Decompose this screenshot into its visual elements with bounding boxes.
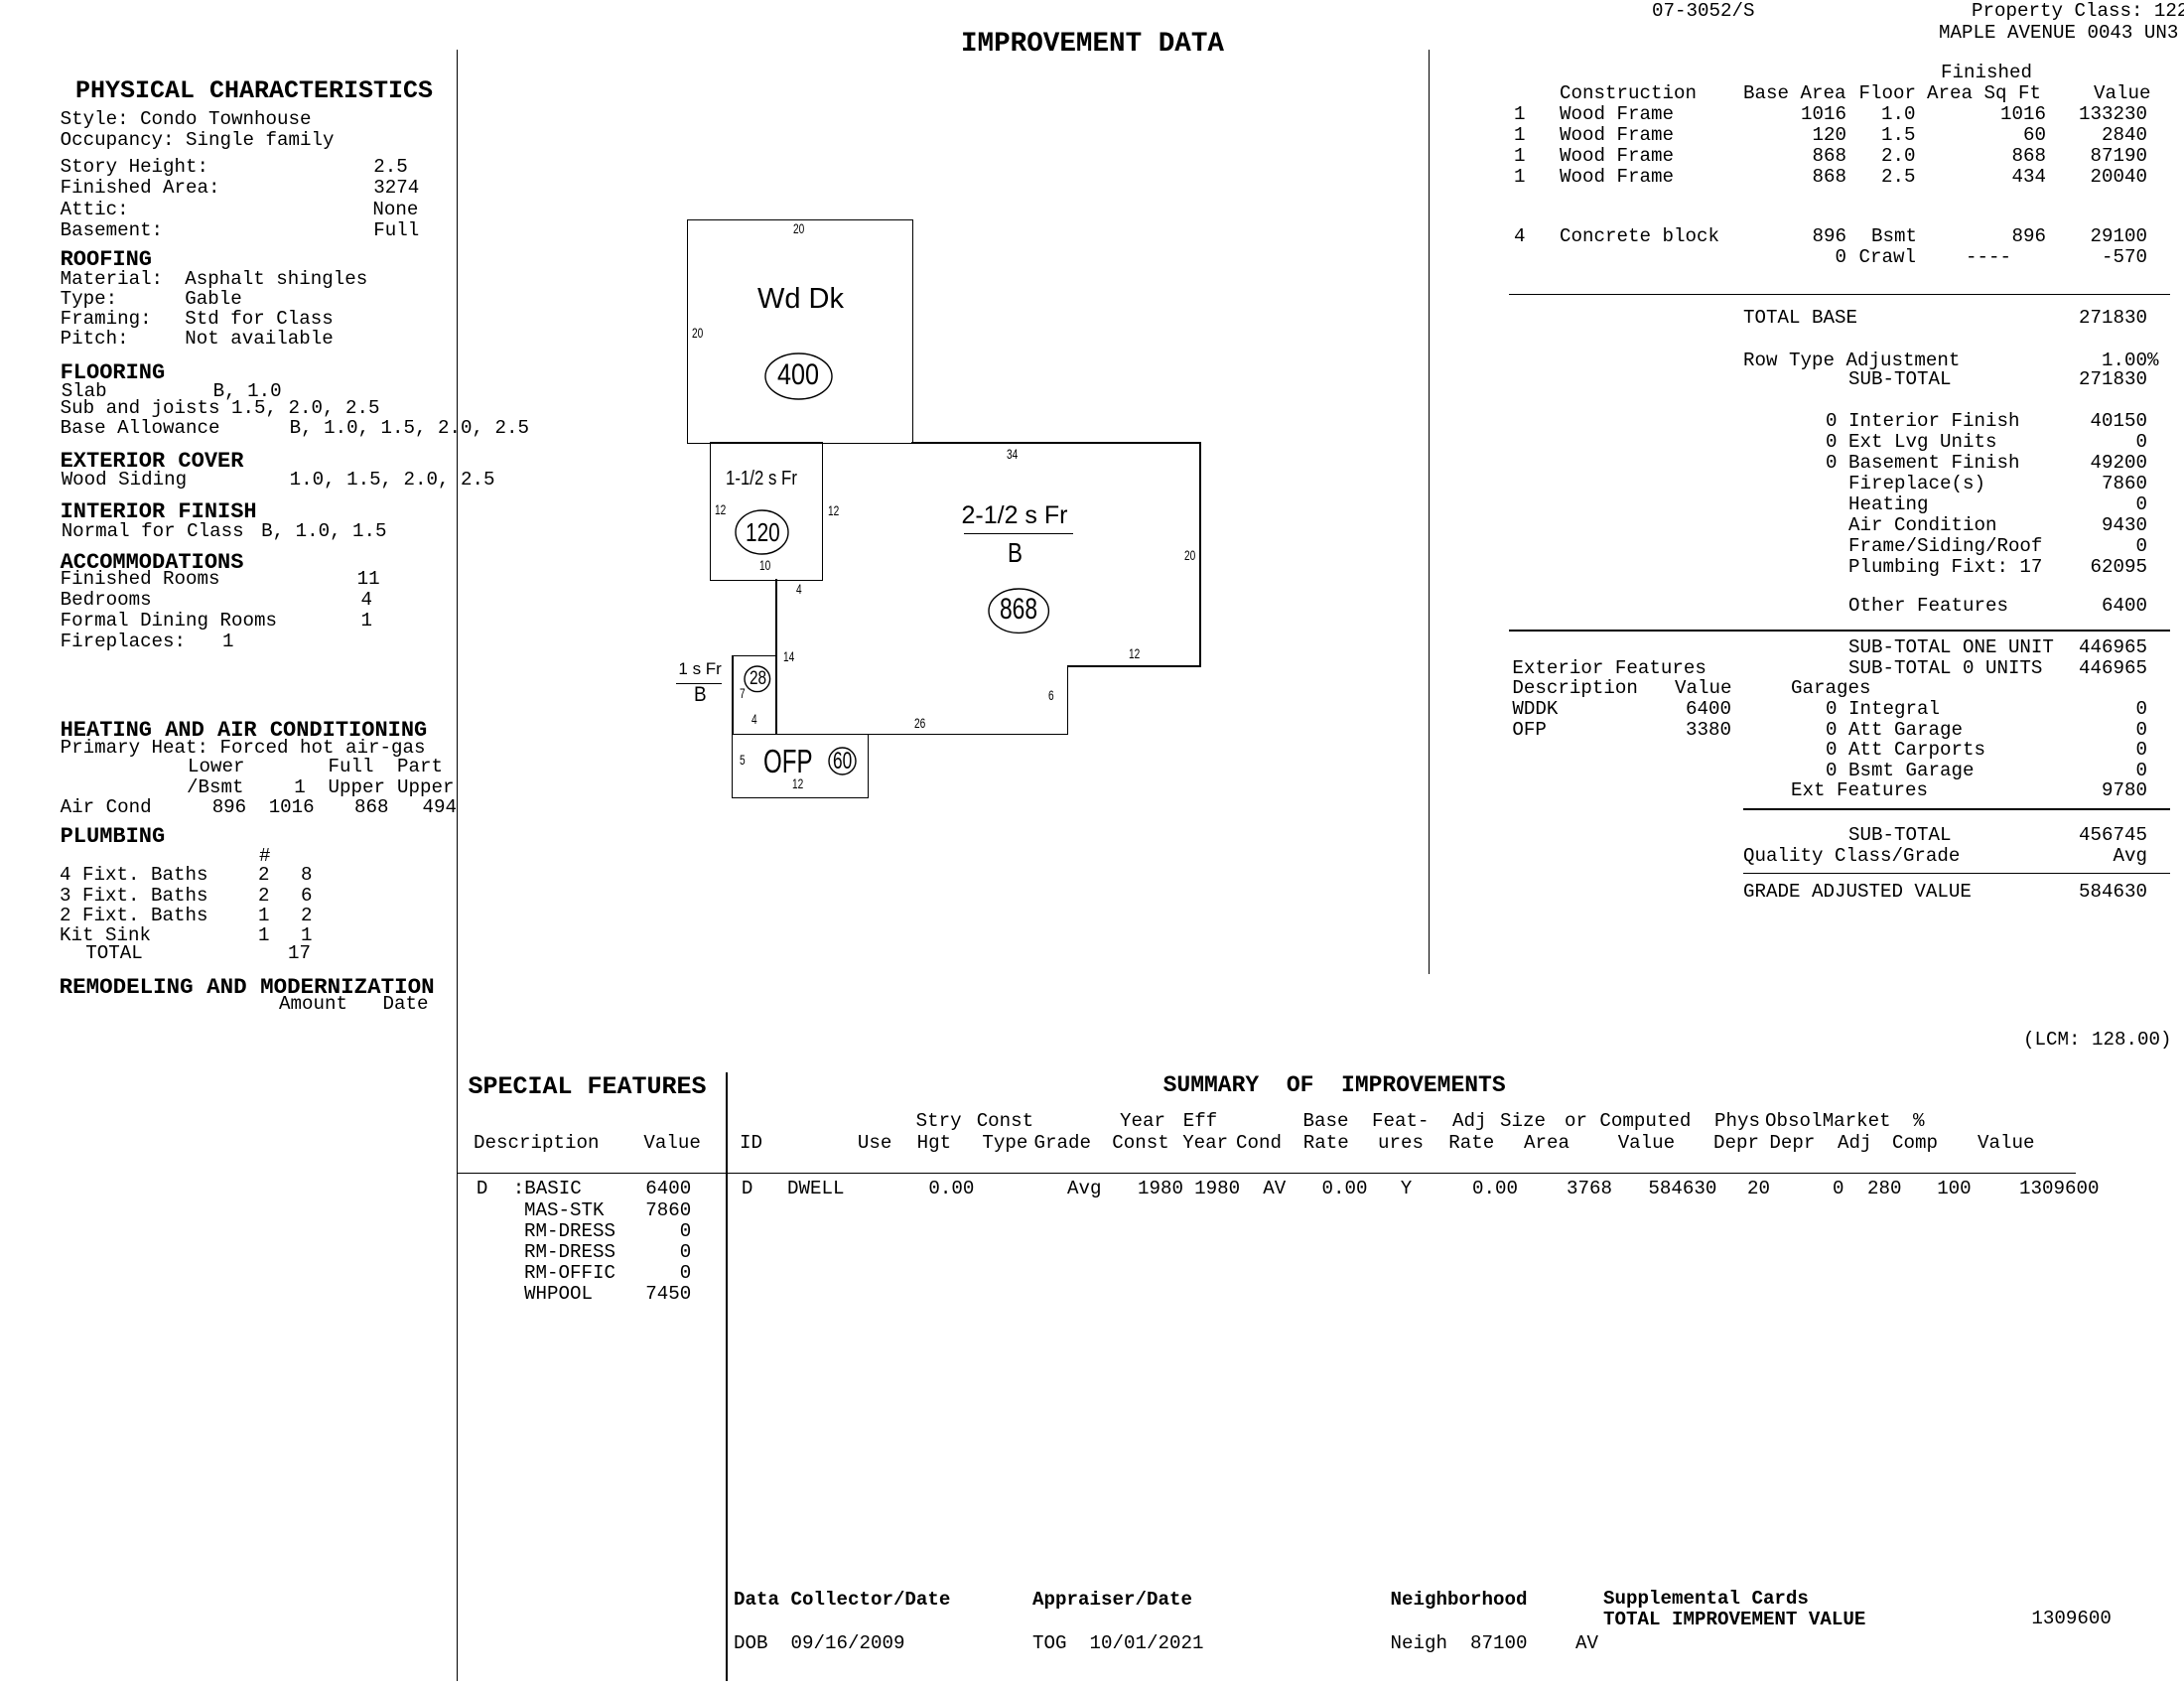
remodeling section [60,976,435,999]
sketch: fraction bar 1 s Fr [676,683,723,684]
sketch: Wd Dk box [687,219,913,444]
top-left case number [1652,2,1754,21]
sketch: 1 s Fr box west edge [732,655,734,735]
LCM note [2023,1031,2171,1050]
hr under construction table [1509,294,2170,296]
sketch: Wd Dk label [757,285,844,314]
sketch: building west edge / connector [775,579,777,735]
sketch: OFP label [763,745,813,777]
bottom footer labels [734,1591,950,1610]
sketch: building outline top edge [911,442,1201,444]
sketch: building bottom edge [732,734,1066,736]
sketch: area circle 60 [827,746,858,776]
flooring section [61,362,166,384]
vertical separator right column [1429,50,1431,974]
sketch: 1 s Fr box top edge [732,655,776,657]
roofing section [61,249,152,271]
sketch: B basement label [694,684,707,705]
sketch: building right edge [1199,442,1201,665]
sketch: area ellipse 400 [763,352,834,401]
page title [961,31,1224,59]
sketch: B label [1008,539,1023,567]
left column: physical characteristics [75,78,433,103]
special features title [469,1074,707,1099]
hr under other features [1509,630,2170,632]
vertical separator left column [457,50,459,1681]
summary header row 1 [916,1112,962,1131]
sketch: 1 s Fr label [678,660,721,677]
construction table [1941,64,2032,82]
top-right property class [1972,2,2184,21]
special features rows [477,1180,488,1198]
summary data row [742,1180,753,1198]
interior finish section [61,501,257,523]
accommodations section [61,552,244,574]
vertical separator special features [726,1072,728,1681]
sketch: area ellipse 120 [734,508,790,556]
summary header row 2 [474,1134,599,1153]
heating section [61,720,428,742]
sketch: OFP box [732,734,869,798]
top-right address [1939,24,2178,43]
sub-total unit block [1848,638,2054,657]
sketch: area circle 28 [743,664,772,694]
summary title [1163,1074,1506,1097]
sketch: 1-1/2 s Fr box [710,442,824,581]
sketch: area ellipse 868 [987,587,1050,634]
sketch: 2-1/2 s Fr label [962,503,1068,528]
sketch: fraction bar 2-1/2 [964,533,1073,534]
hr under summary headers [457,1173,2076,1175]
sketch: 1-1/2 s Fr label [726,469,797,490]
hr under ext features [1743,808,2170,810]
hr under quality class [1743,873,2170,875]
totals block [1743,309,1857,328]
sketch: dimension labels [793,222,804,236]
sketch: building step vertical [1067,665,1069,735]
exterior cover section [61,451,244,473]
plumbing section [61,826,166,848]
sketch: building step horizontal [1067,665,1201,667]
